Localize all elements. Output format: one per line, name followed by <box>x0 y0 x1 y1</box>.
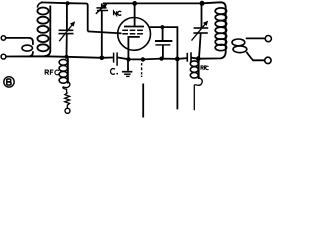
label C <box>111 69 119 75</box>
wire bottom rail right <box>191 52 226 59</box>
wire bottom rail middle <box>117 57 187 59</box>
wire <box>29 51 33 56</box>
node junction top of C2 <box>200 1 205 6</box>
tube V1 envelope <box>118 18 151 51</box>
transformer T2 primary coil <box>215 8 226 52</box>
transformer T2 secondary coil <box>232 38 265 60</box>
label RFC2 <box>201 66 209 70</box>
node junction plate lead <box>132 1 137 6</box>
bypass capacitor <box>155 27 172 59</box>
node junction bypass cap <box>160 25 164 29</box>
variable capacitor C2 <box>192 3 209 58</box>
trimmer capacitor NC <box>96 3 108 57</box>
output terminal bottom <box>265 57 271 63</box>
capacitor C series <box>114 52 118 65</box>
node junction top of C1 <box>66 1 70 5</box>
input terminal bottom <box>1 54 6 59</box>
node junction C1 bottom <box>64 55 68 59</box>
transformer T1 secondary coil <box>37 3 50 57</box>
ground <box>122 59 132 76</box>
tube V1 grid row1 <box>122 29 143 31</box>
wire plate lead <box>134 3 136 26</box>
node junction dashed link <box>141 57 145 61</box>
tube V1 cathode and lead <box>128 37 139 59</box>
coupling capacitor series right <box>187 52 191 62</box>
wire vertical lead <box>142 84 144 118</box>
output terminal top <box>265 36 271 42</box>
tube V1 plate <box>124 26 144 28</box>
node junction screen lead <box>175 57 180 62</box>
label B circled <box>4 77 14 87</box>
wire top rail left <box>41 2 88 31</box>
transformer T1 primary loop <box>22 45 32 51</box>
wire dashed link <box>141 63 143 77</box>
variable capacitor C1 <box>59 3 76 56</box>
label RFC <box>45 70 59 75</box>
RFC choke L1 <box>59 57 70 93</box>
wire <box>6 38 33 45</box>
tube V1 grid row2 <box>122 33 143 35</box>
node junction bypass bottom <box>159 57 163 61</box>
node junction RFC2 top <box>196 56 201 61</box>
RFC choke L2 <box>190 59 202 110</box>
wire bottom rail left <box>6 56 113 58</box>
node junction cathode-ground <box>126 57 130 61</box>
wire screen/plate to B+ <box>149 27 177 109</box>
wire top rail right <box>103 2 226 7</box>
node junction NC bottom <box>100 56 105 61</box>
resistor R1 <box>65 93 70 109</box>
terminal B plus <box>65 108 70 113</box>
label NC <box>114 11 122 15</box>
wire grid line <box>88 31 122 33</box>
input terminal top <box>1 36 5 40</box>
